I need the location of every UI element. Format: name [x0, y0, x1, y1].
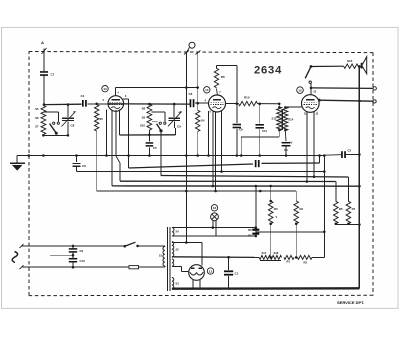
- wire aerial coil bottom: [42, 134, 69, 137]
- svg-text:15: 15: [298, 88, 302, 92]
- wire mains bottom: [20, 265, 129, 269]
- winding S3 rect heater: [172, 278, 179, 289]
- svg-text:R7: R7: [352, 207, 356, 211]
- wire heater line bottom: [172, 235, 257, 238]
- svg-text:S14: S14: [288, 118, 293, 122]
- wire S14 top to valve15: [285, 106, 301, 108]
- resistor R2: [297, 255, 312, 264]
- AC mains symbol: [12, 252, 17, 263]
- wire valve13 pin3 branch: [123, 99, 128, 168]
- inductor S5 S6 S7 aerial coil: [35, 106, 46, 135]
- wire S13 bottom: [240, 131, 279, 157]
- wire R5 R7 bottoms: [336, 223, 361, 226]
- valve U15 output: [302, 90, 320, 116]
- inductor S17 S18 choke: [259, 251, 282, 260]
- winding S2 HT: [172, 242, 179, 257]
- loudspeaker: [362, 57, 367, 74]
- wire valve14 anode out: [225, 103, 238, 105]
- valve label 13: [102, 86, 108, 92]
- resistor S15 speaker feed: [311, 59, 361, 68]
- winding S4 heater: [172, 228, 179, 236]
- capacitor C2: [324, 149, 360, 159]
- wire bus L1 AVC: [129, 164, 253, 168]
- svg-text:S4: S4: [176, 230, 180, 234]
- wire bus L5: [112, 185, 361, 188]
- svg-text:12: 12: [209, 269, 213, 273]
- dashed chassis border: [29, 52, 373, 296]
- svg-text:S7: S7: [35, 125, 39, 129]
- capacitor C9 mains: [69, 246, 84, 253]
- switch wave-change left: [43, 112, 59, 135]
- wire R3 top: [270, 186, 272, 201]
- svg-text:S13: S13: [272, 117, 277, 121]
- wire anode top valve13: [115, 86, 199, 96]
- wire C6 to valve14: [195, 102, 209, 105]
- svg-text:S10: S10: [140, 124, 145, 128]
- svg-text:C4: C4: [81, 94, 85, 98]
- wire HT line: [172, 256, 259, 259]
- wire valve15 to terminal1: [311, 87, 373, 90]
- wire valve15 cathode leads: [306, 112, 316, 183]
- switch output: [305, 65, 312, 83]
- wire right bus: [358, 65, 361, 288]
- valve label 15: [297, 87, 304, 94]
- inductor osc coil: [95, 105, 104, 192]
- valve label 14: [204, 87, 210, 93]
- winding S1 primary: [159, 246, 165, 267]
- svg-text:R10: R10: [244, 96, 250, 100]
- svg-text:S15: S15: [347, 59, 353, 63]
- capacitor C11: [256, 104, 268, 157]
- valve label 12: [207, 268, 213, 274]
- wire stage2 grid line: [108, 103, 190, 106]
- fuse mains: [129, 266, 165, 269]
- svg-text:C7: C7: [51, 73, 55, 77]
- valve U14 detector: [205, 90, 226, 114]
- wire bus L4: [120, 181, 336, 201]
- wire rectifier left step: [172, 266, 189, 271]
- transformer S13 S14 coupling: [272, 104, 294, 132]
- capacitor C1 filter: [224, 257, 239, 288]
- svg-text:C6: C6: [189, 92, 193, 96]
- svg-text:R2: R2: [304, 261, 308, 265]
- wire main earth bus: [17, 154, 326, 157]
- svg-text:S2: S2: [176, 248, 180, 252]
- svg-text:C10: C10: [80, 259, 86, 263]
- wire HT to dropper: [312, 256, 324, 258]
- svg-text:C4: C4: [284, 148, 288, 152]
- wire dropper right vert: [323, 154, 326, 257]
- svg-text:S18: S18: [274, 251, 279, 255]
- svg-text:C6: C6: [82, 164, 86, 168]
- svg-text:V: V: [276, 215, 278, 219]
- wire bus L2: [77, 170, 326, 173]
- svg-text:16: 16: [213, 206, 217, 210]
- wire switch right to L3: [160, 131, 162, 176]
- svg-text:S5: S5: [35, 107, 39, 111]
- dial lamp: [211, 213, 219, 236]
- wire R6 top to dropper: [217, 65, 239, 105]
- svg-text:C8: C8: [239, 128, 243, 132]
- resistor R1: [284, 255, 294, 263]
- wire valve13 cathode leads: [105, 110, 120, 186]
- wire S2 top to rectifier: [172, 243, 202, 266]
- svg-text:S8: S8: [142, 107, 146, 111]
- terminal output 1: [373, 87, 376, 90]
- inductor S8 S9 S10: [140, 104, 152, 130]
- svg-text:R5: R5: [339, 207, 343, 211]
- wire gram terminal 2: [195, 51, 200, 88]
- resistor R4: [294, 201, 304, 225]
- svg-text:2634: 2634: [254, 65, 282, 77]
- wire R3 bottom: [269, 224, 272, 259]
- wire mains top: [20, 244, 125, 248]
- resistor R5: [334, 201, 344, 225]
- title 2634: [254, 65, 282, 77]
- capacitor C3 series: [255, 154, 321, 167]
- lamp label 16: [211, 205, 217, 211]
- wire rectifier cathode legs: [193, 280, 200, 289]
- svg-text:R3: R3: [274, 207, 278, 211]
- resistor R10: [239, 96, 258, 106]
- terminal output 2: [373, 100, 376, 103]
- valve U13 mixer: [103, 91, 127, 111]
- ground symbol: [10, 156, 25, 171]
- label SERVICE DPT.: [337, 300, 364, 305]
- wire grid line stage1: [44, 103, 82, 105]
- wire gram line down: [185, 191, 188, 244]
- capacitor C8b coupling: [233, 104, 243, 157]
- svg-text:C5: C5: [153, 146, 157, 150]
- svg-text:S4: S4: [201, 119, 205, 123]
- antenna A terminal: [41, 40, 47, 54]
- svg-text:S6: S6: [100, 117, 104, 121]
- wire valve15 top: [310, 84, 313, 95]
- svg-text:C9: C9: [80, 249, 84, 253]
- wire HT negative bus: [172, 287, 360, 290]
- svg-text:A: A: [41, 40, 44, 45]
- svg-text:V: V: [291, 141, 293, 145]
- capacitor C6 bypass: [72, 156, 86, 172]
- valve U12 rectifier: [189, 265, 205, 281]
- svg-text:R6: R6: [221, 75, 225, 79]
- svg-text:S17: S17: [262, 251, 267, 255]
- svg-text:SERVICE DPT.: SERVICE DPT.: [337, 300, 364, 305]
- svg-text:14: 14: [205, 88, 209, 92]
- wire C4 to valve grid: [87, 103, 107, 106]
- winding S2b: [172, 259, 174, 266]
- svg-text:C2: C2: [348, 149, 352, 153]
- wire gram terminal 1: [184, 42, 195, 242]
- switch mains: [124, 242, 165, 247]
- svg-text:C1: C1: [235, 272, 239, 276]
- wire R10 to IF: [258, 103, 281, 106]
- capacitor C5 series: [146, 135, 157, 157]
- wire bus L6: [97, 190, 297, 201]
- wire valve15 anode right: [318, 99, 373, 103]
- wire bus L3: [161, 176, 349, 202]
- wire heater line top: [172, 226, 257, 229]
- capacitor C5 detector: [282, 131, 293, 157]
- capacitor C4 series: [81, 94, 87, 107]
- svg-text:S1: S1: [159, 254, 163, 258]
- capacitor C6 series: [189, 92, 195, 107]
- svg-text:R1: R1: [287, 260, 291, 264]
- svg-text:R4: R4: [300, 207, 304, 211]
- wire coil2 bottom: [120, 130, 176, 136]
- wire R4 bottom: [295, 224, 298, 259]
- transformer core: [168, 227, 170, 291]
- svg-text:C8: C8: [71, 124, 75, 128]
- inductor S4 osc coupling: [196, 88, 205, 156]
- svg-text:13: 13: [103, 87, 107, 91]
- svg-text:C11: C11: [262, 129, 267, 133]
- svg-text:C9: C9: [177, 125, 181, 129]
- svg-text:S3: S3: [176, 282, 180, 286]
- svg-text:S6: S6: [35, 116, 39, 120]
- capacitor C7: [40, 71, 55, 106]
- resistors R8 R9 hum pots: [248, 228, 259, 238]
- switch wave-change right: [152, 112, 166, 133]
- resistor R3: [268, 200, 278, 225]
- resistor R7: [346, 201, 356, 225]
- resistor R6 grid leak: [214, 65, 225, 95]
- wire antenna lead-in: [43, 49, 45, 72]
- capacitor C10 mains: [50, 252, 85, 267]
- variable capacitor C8 tuning: [62, 103, 76, 135]
- svg-text:S9: S9: [142, 116, 146, 120]
- wire heater feed valve15: [255, 185, 325, 232]
- wire valve14 cathode leads: [207, 111, 223, 193]
- variable capacitor C9 tuning: [168, 104, 182, 135]
